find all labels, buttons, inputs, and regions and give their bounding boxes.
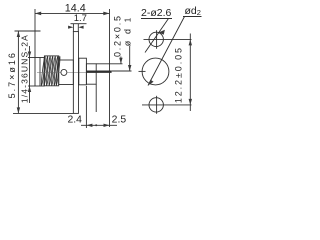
svg-text:0.2×0.5: 0.2×0.5 xyxy=(113,14,123,57)
side view: mating tube front (double face line) xyxy=(28,58,44,87)
svg-text:1/4-36UNS-2A: 1/4-36UNS-2A xyxy=(20,34,30,103)
dim 12.2 +-0.05 xyxy=(189,34,192,112)
bottom chained dims 2.4 / 2.5 xyxy=(81,84,117,128)
thread section with coils xyxy=(41,56,61,86)
svg-text:5.7×ø16: 5.7×ø16 xyxy=(7,51,17,98)
pin xyxy=(86,70,111,72)
thread dia dim line (1/4-36UNS-2A) with outside arrows xyxy=(28,46,35,103)
dim 1.7 flange thickness xyxy=(68,24,86,32)
svg-text:2.5: 2.5 xyxy=(112,114,127,125)
front view bottom mounting hole xyxy=(149,98,163,112)
dim 14.4 overall: extension lines xyxy=(35,9,110,127)
svg-text:d: d xyxy=(122,29,132,34)
label dia d1 with down arrow xyxy=(128,46,131,71)
svg-text:2-ø2.6: 2-ø2.6 xyxy=(141,7,172,19)
collar behind flange xyxy=(79,58,87,85)
front view body circle xyxy=(142,58,169,85)
svg-text:2.4: 2.4 xyxy=(67,114,82,125)
insulator top extension line xyxy=(96,63,122,65)
bottom hole horizontal centerline xyxy=(142,104,192,106)
label 0.2x0.5 with down arrow xyxy=(119,57,122,64)
body circle centerline stub xyxy=(139,70,146,72)
insulator xyxy=(86,64,96,84)
top hole horizontal centerline xyxy=(144,38,192,40)
flange height extension lines xyxy=(13,31,73,113)
svg-text:1: 1 xyxy=(124,17,133,22)
dim line flange height (5.7 x dia16) xyxy=(17,31,20,113)
svg-text:12.2±0.05: 12.2±0.05 xyxy=(173,46,183,103)
svg-text:ø: ø xyxy=(122,40,132,46)
axis centerline xyxy=(37,71,99,73)
pin top extension line xyxy=(112,70,132,72)
svg-text:1.7: 1.7 xyxy=(74,13,87,24)
neck section with vent hole xyxy=(59,60,74,85)
front view top mounting hole xyxy=(149,32,163,46)
flange xyxy=(73,32,78,114)
hole vertical centerlines xyxy=(156,30,158,49)
